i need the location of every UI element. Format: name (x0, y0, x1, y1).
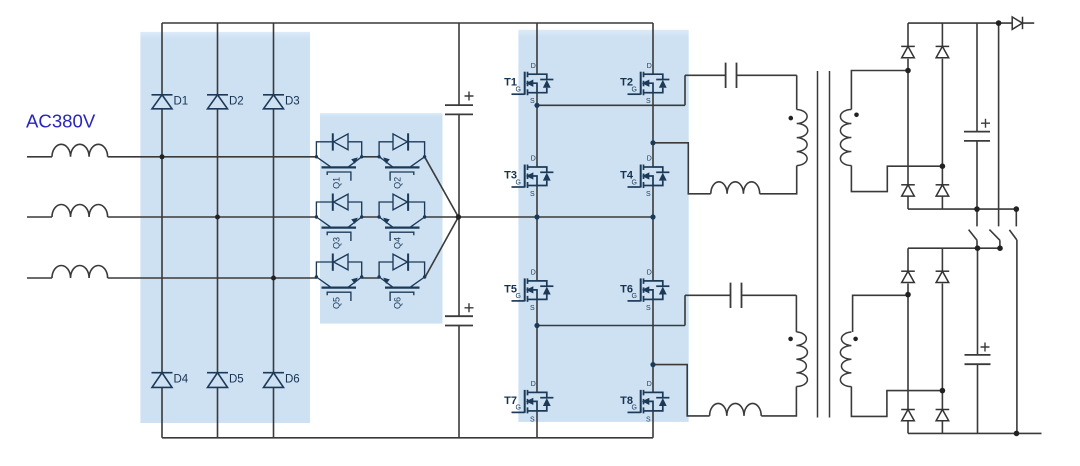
inductor Lr1 (series resonant) (711, 182, 760, 194)
diode DR1 (901, 46, 915, 57)
svg-text:T2: T2 (620, 77, 633, 89)
svg-text:D: D (647, 270, 652, 277)
diode DR6 (936, 271, 950, 282)
MOSFET T5 (512, 278, 554, 302)
wire: Q2 output diagonal to node M (425, 157, 459, 217)
TR1 primary polarity dot (789, 116, 794, 121)
wire: phase C input (27, 277, 52, 279)
diode DR8 (936, 410, 950, 421)
node: T5 source / T7 drain (534, 323, 539, 328)
svg-text:S: S (646, 416, 651, 423)
node: T6-T8 midpoint tap (650, 362, 655, 367)
node M: DC midpoint (456, 214, 461, 219)
node: mid rail at leg A (534, 214, 539, 219)
transformer TR2 primary winding (796, 332, 807, 387)
diode D_out (series blocking) (1012, 17, 1022, 30)
diode D3 (263, 95, 284, 109)
transistor Q5 with anti-parallel diode (316, 254, 361, 302)
svg-text:S: S (646, 305, 651, 312)
wire: rectifier leg 1 (D1/D4) (161, 23, 163, 438)
svg-text:D: D (647, 156, 652, 163)
diode D6 (263, 373, 284, 388)
wire: DC- bottom rail (162, 437, 653, 439)
wire: bridge leg A lower (T5/T7) (536, 217, 538, 438)
svg-text:Q5: Q5 (332, 297, 342, 309)
wire: output rectifier 2 leg 1 (907, 248, 909, 433)
capacitor Co1 (output filter) (964, 119, 990, 141)
wire: output filter cap 1 leg (976, 23, 978, 209)
wire: series output leg from top rail (998, 23, 1000, 226)
capacitor C1 (DC link upper) (445, 92, 474, 115)
diode D5 (207, 373, 228, 388)
svg-text:T6: T6 (620, 283, 633, 295)
MOSFET T8 (628, 390, 670, 414)
MOSFET T4 (628, 165, 670, 189)
node: phase C to leg3 (271, 276, 276, 281)
switch S3 (1009, 209, 1017, 433)
transformer TR2 secondary winding (840, 332, 851, 387)
svg-text:D: D (531, 156, 536, 163)
wire: output rectifier 2 bottom rail (908, 432, 1042, 434)
wire: DC+ top rail (162, 22, 653, 24)
TR2 secondary polarity dot (853, 337, 858, 342)
TR1 secondary polarity dot (854, 113, 859, 118)
node: rect2 top rail / S1 (975, 245, 981, 251)
inductor Lc (52, 266, 108, 279)
inductor Lr2 (series resonant) (710, 403, 762, 416)
node: T2-T4 midpoint tap (650, 140, 655, 145)
switch S2 (989, 230, 1000, 249)
diode DR7 (901, 410, 915, 421)
svg-text:T5: T5 (504, 283, 517, 295)
svg-text:T4: T4 (620, 170, 634, 182)
svg-text:S: S (530, 416, 535, 423)
wire: rectifier leg 2 (D2/D5) (217, 23, 219, 438)
node: phase B to leg2 (215, 215, 220, 220)
wire: DC-link capacitor leg (458, 23, 460, 438)
svg-text:T3: T3 (504, 170, 517, 182)
transistor Q3 with anti-parallel diode (316, 194, 361, 242)
svg-text:D5: D5 (229, 374, 244, 386)
diode D2 (207, 95, 228, 109)
wire: TR2 secondary top to rectifier 2 leg1 (853, 295, 908, 332)
transistor Q2 with anti-parallel diode (379, 133, 425, 181)
wire: bridge leg B lower (T6/T8) (652, 217, 654, 438)
node: sec2 top / leg1 (905, 292, 911, 298)
svg-text:S: S (646, 191, 651, 198)
node: mid rail at leg B (650, 214, 655, 219)
svg-text:D6: D6 (285, 374, 300, 386)
capacitor C2 (DC link lower) (445, 303, 474, 325)
svg-text:S: S (530, 191, 535, 198)
svg-text:T7: T7 (504, 395, 517, 407)
transistor Q1 with anti-parallel diode (316, 133, 361, 181)
MOSFET T1 (512, 72, 554, 96)
diode D1 (152, 95, 173, 109)
transistor Q6 with anti-parallel diode (379, 254, 425, 302)
transformer core (818, 71, 830, 418)
wire: upper bridge output b (T2-T4 midpoint) to resonant inductor (653, 143, 797, 194)
svg-text:D2: D2 (229, 96, 244, 108)
wire: bridge leg A upper (T1/T3) (536, 23, 538, 217)
wire: Q1-Q2 link (362, 156, 379, 158)
highlight block: input rectifier D1-D6 (140, 32, 310, 423)
node: sec1 top / leg1 (905, 68, 911, 74)
wire: TR2 secondary bottom to rectifier 2 leg2 (851, 387, 942, 417)
diode D4 (152, 373, 173, 388)
wire: output rectifier 1 top rail (908, 22, 1034, 24)
wire: phase A input (27, 156, 52, 158)
svg-text:S: S (530, 98, 535, 105)
node: cap1 / bottom rail (974, 206, 980, 212)
wire: Q4 output to node M (425, 216, 459, 218)
capacitor Co2 (output filter) (965, 343, 991, 365)
inductor La (52, 144, 108, 157)
diode DR4 (936, 185, 950, 196)
svg-text:AC380V: AC380V (26, 110, 96, 131)
wire: TR1 secondary bottom to rectifier leg2 (851, 166, 942, 192)
wire: lower bridge output b (T6-T8 midpoint) to resonant inductor 2 (653, 365, 796, 416)
transistor Q4 with anti-parallel diode (379, 194, 425, 242)
MOSFET T2 (628, 72, 670, 96)
inductor Lb (52, 204, 108, 217)
node: sec1 bottom / leg2 (940, 163, 946, 169)
svg-text:D3: D3 (285, 96, 300, 108)
capacitor Cr2 (series resonant) (731, 283, 742, 308)
MOSFET T6 (628, 278, 670, 302)
svg-text:T8: T8 (620, 395, 633, 407)
highlight block: bidirectional switch cells Q1-Q6 (320, 113, 443, 324)
svg-text:S: S (530, 305, 535, 312)
node: rect2 top rail / S2 (997, 245, 1003, 251)
wire: Q3-Q4 link (362, 216, 379, 218)
diode DR5 (901, 271, 915, 282)
svg-text:Q2: Q2 (393, 177, 403, 189)
capacitor Cr1 (series resonant) (726, 63, 737, 88)
wire: output rectifier 1 leg 2 (941, 23, 943, 209)
wire: rectifier leg 3 (D3/D6) (273, 23, 275, 438)
MOSFET T7 (512, 390, 554, 414)
svg-text:D4: D4 (174, 374, 189, 386)
switch S1 (969, 209, 977, 248)
node: rect2 bottom rail / S3 (1014, 431, 1020, 437)
svg-text:Q1: Q1 (332, 177, 342, 189)
svg-text:D1: D1 (174, 96, 189, 108)
wire: mid rail node M to bridge legs (458, 216, 653, 218)
wire: Q6 output diagonal to node M (425, 217, 459, 278)
wire: output rectifier 1 leg 1 (907, 23, 909, 209)
MOSFET T3 (512, 165, 554, 189)
svg-text:Q6: Q6 (393, 297, 403, 309)
transformer TR1 secondary winding (840, 110, 851, 166)
node: bottom rail / switch S3 (1014, 206, 1020, 212)
svg-text:S: S (646, 98, 651, 105)
svg-text:D: D (647, 381, 652, 388)
TR2 primary polarity dot (788, 337, 793, 342)
svg-text:Q3: Q3 (332, 237, 342, 249)
node: T1 source / T3 drain (534, 103, 539, 108)
node: sec2 bottom / leg2 (940, 388, 946, 394)
wire: output rectifier 2 top rail (908, 247, 1000, 249)
svg-text:Q4: Q4 (393, 237, 403, 249)
wire: bridge leg B upper (T2/T4) (652, 23, 654, 217)
svg-text:D: D (531, 270, 536, 277)
wire: upper bridge output a (T1 source) to resonant cap (537, 75, 797, 109)
wire: output rectifier 2 leg 2 (941, 248, 943, 433)
svg-text:D: D (531, 63, 536, 70)
highlight block: full-bridge inverter T1-T8 (518, 30, 688, 422)
transformer TR1 primary winding (797, 110, 808, 166)
svg-text:T1: T1 (504, 77, 517, 89)
wire: TR1 secondary top to rectifier leg1 (851, 71, 908, 110)
diode DR3 (901, 185, 915, 196)
node: phase A to leg1 (160, 154, 165, 159)
wire: output rectifier 1 bottom rail (908, 208, 1016, 210)
wire: output filter cap 2 leg (977, 248, 979, 433)
node: top rail / series leg (996, 20, 1002, 26)
svg-text:D: D (647, 63, 652, 70)
wire: lower bridge output a (T5 source) to resonant cap 2 (537, 295, 796, 332)
svg-text:D: D (531, 381, 536, 388)
wire: phase B input (27, 216, 52, 218)
diode DR2 (936, 46, 950, 57)
wire: Q5-Q6 link (362, 277, 379, 279)
